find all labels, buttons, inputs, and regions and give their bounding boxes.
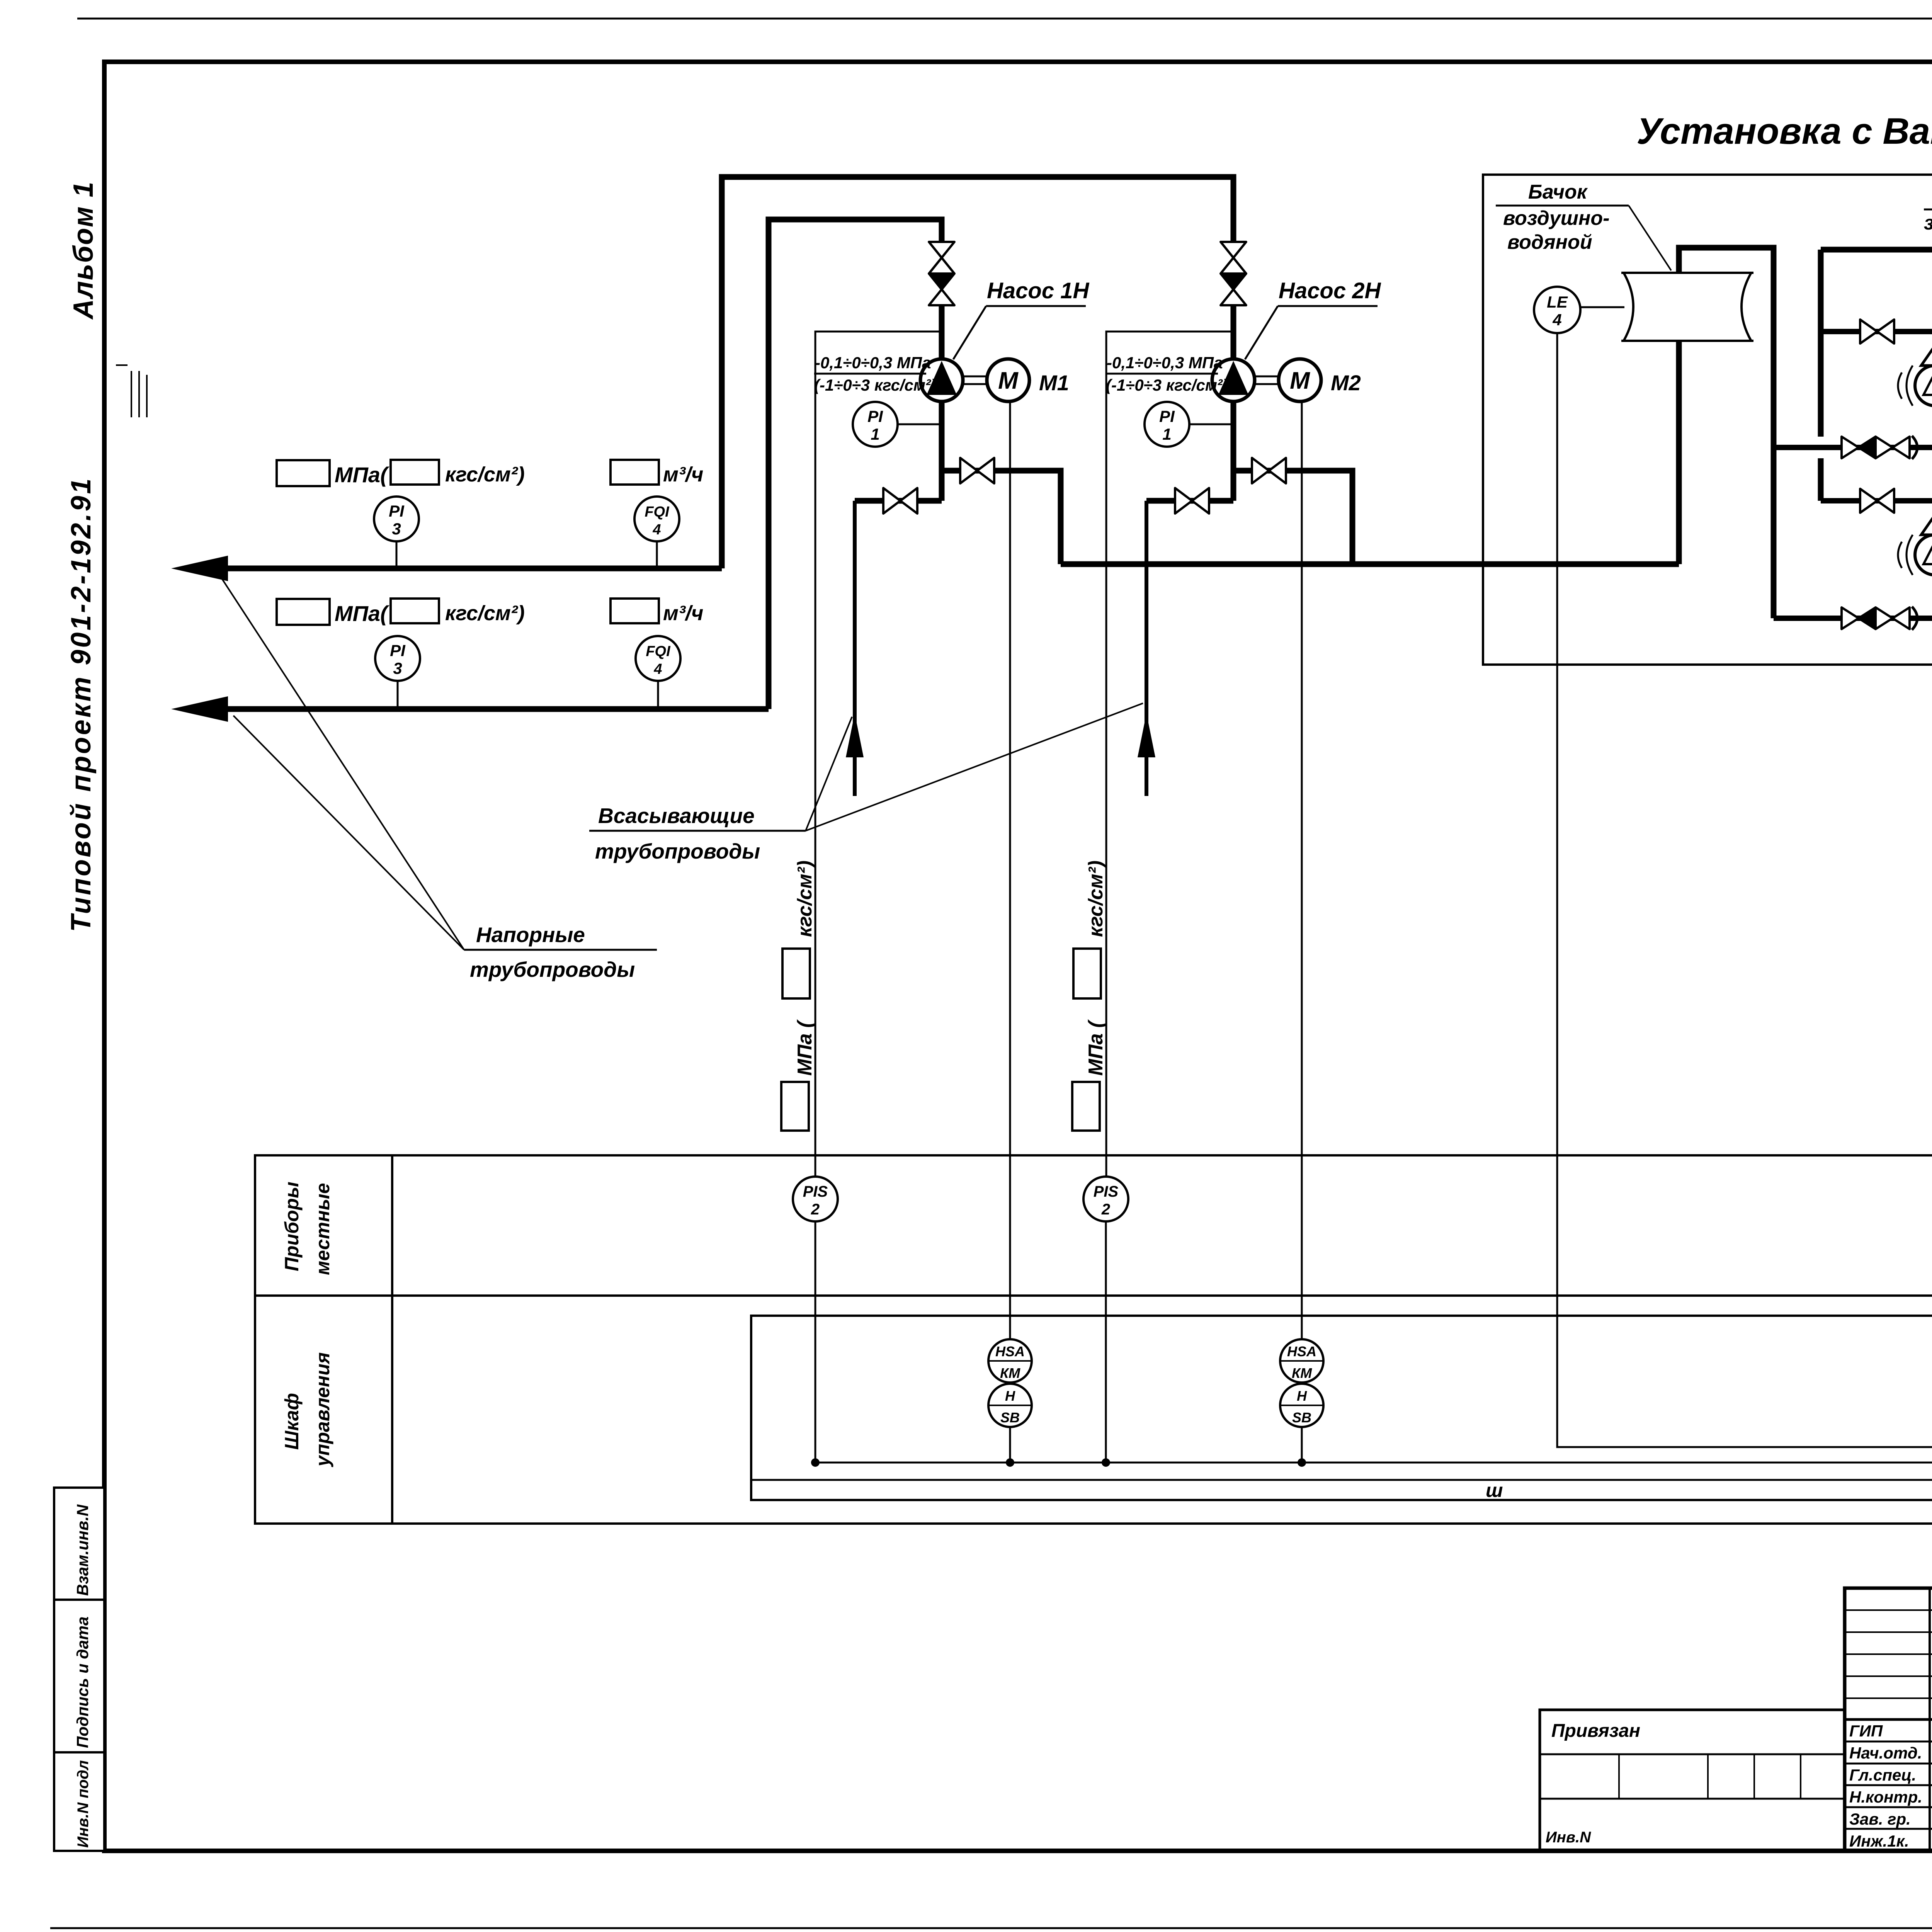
signature row ГИП Белянинов (1849, 1722, 1932, 1740)
wire suction branch pump М1 (855, 498, 942, 504)
gauge PI-1 М1 (853, 402, 942, 447)
gate valve above pump М2 (1221, 242, 1246, 274)
vibration arcs 2ВН (1898, 535, 1913, 575)
switch PIS-2 pump М2 (1083, 1177, 1128, 1221)
label Бачок воздушно-водяной (1496, 181, 1671, 270)
svg-text:МПа (: МПа ( (1085, 1019, 1107, 1076)
rotated value box on impulse line x=2863 (1073, 949, 1101, 998)
signature row Зав. гр. Бурыгин (1849, 1810, 1932, 1828)
wire LE-4 signal drop (1557, 333, 1932, 1447)
arrowhead pipeline 1 (171, 556, 228, 581)
label Насос 1Н (953, 278, 1089, 359)
table row divider (255, 1294, 1932, 1297)
svg-text:Напорные: Напорные (476, 923, 585, 947)
svg-text:Инж.1к.: Инж.1к. (1849, 1832, 1909, 1850)
suction pipeline stub М1 (846, 501, 864, 796)
priming branch to 2ВН (1821, 498, 1932, 503)
wire motor control drop М1 (1009, 401, 1011, 1340)
button H/SB М1 (988, 1384, 1032, 1427)
rotated value box 2 on impulse line x=2863 (1072, 1082, 1100, 1131)
svg-text:Насос 2Н: Насос 2Н (1279, 278, 1381, 303)
svg-text:КМ: КМ (1292, 1365, 1312, 1381)
svg-text:-0,1÷0÷0,3 МПа: -0,1÷0÷0,3 МПа (1107, 354, 1223, 372)
sheet top edge line (77, 18, 1932, 20)
gate valve above pump М1 (929, 242, 954, 274)
svg-text:(-1÷0÷3 кгс/см²): (-1÷0÷3 кгс/см²) (1106, 376, 1228, 394)
svg-text:М2: М2 (1331, 371, 1361, 395)
flex joint mark manifold A (1912, 436, 1917, 459)
svg-text:Зав. гр.: Зав. гр. (1849, 1810, 1911, 1828)
svg-text:Гл.спец.: Гл.спец. (1849, 1766, 1916, 1784)
control bus to scheme (815, 1454, 1932, 1471)
svg-text:4: 4 (653, 661, 662, 677)
pipe collector riser through tank (1679, 248, 1774, 618)
wire pump suction drop М1 (939, 305, 945, 360)
check valve above pump М2 (1221, 274, 1246, 305)
wire М2 to bus (1301, 1427, 1303, 1463)
impulse line to PIS-2 М2 (1106, 332, 1233, 1177)
priming trunk pipe (1821, 250, 1932, 501)
pressure range label М1 (814, 354, 936, 394)
vacuum pump 1ВН (1915, 366, 1932, 406)
svg-text:МПа (: МПа ( (794, 1019, 816, 1076)
binding box Привязан (1540, 1710, 1845, 1851)
wire pump discharge drop М2 (1231, 401, 1236, 501)
vacuum suction manifold B (1774, 361, 1932, 618)
svg-text:Шкаф: Шкаф (281, 1393, 303, 1450)
svg-text:Установка с Вакуум-насосами: Установка с Вакуум-насосами (1636, 111, 1932, 152)
selector HSA/КМ М2 (1280, 1339, 1323, 1383)
svg-text:М1: М1 (1039, 371, 1069, 395)
signature row Н.контр. Фомина (1849, 1788, 1932, 1806)
svg-text:местные: местные (312, 1183, 333, 1275)
wire pump suction drop М2 (1231, 305, 1236, 360)
bus Ш (751, 1473, 1932, 1486)
left margin stamp box Подпись и дата (54, 1600, 104, 1752)
signature row Нач.отд. Москалец (1849, 1744, 1932, 1762)
svg-text:2: 2 (1101, 1201, 1110, 1218)
value box м3/ч row1 (611, 460, 659, 485)
svg-text:заливочный: заливочный (1924, 212, 1932, 234)
junction dot PIS М2 (1102, 1458, 1110, 1467)
svg-text:Подпись и дата: Подпись и дата (73, 1617, 92, 1748)
pressure range label М2 (1106, 354, 1228, 394)
svg-text:PI: PI (1159, 407, 1175, 425)
label Бачок заливочный (1924, 185, 1932, 266)
svg-text:Взам.инв.N: Взам.инв.N (73, 1504, 92, 1596)
svg-text:Приборы: Приборы (281, 1182, 303, 1271)
vibration arcs 1ВН (1898, 366, 1913, 406)
svg-text:2: 2 (811, 1201, 820, 1218)
valve on suction branch М2 (1175, 488, 1209, 514)
flowmeter FQI-4 on pipeline 2 (636, 636, 680, 708)
svg-text:PIS: PIS (1094, 1183, 1119, 1200)
svg-text:Всасывающие: Всасывающие (598, 804, 755, 828)
svg-text:1: 1 (1162, 425, 1171, 443)
svg-text:HSA: HSA (1287, 1344, 1316, 1359)
svg-text:PIS: PIS (803, 1183, 828, 1200)
button H/SB М2 (1280, 1384, 1323, 1427)
svg-text:Альбом 1: Альбом 1 (68, 181, 99, 320)
discharge pipeline 1 (upper) (226, 177, 1233, 568)
svg-text:КМ: КМ (1000, 1365, 1020, 1381)
signatures grid (1845, 1588, 1932, 1851)
svg-text:PI: PI (867, 407, 883, 425)
svg-text:Насос 1Н: Насос 1Н (987, 278, 1089, 303)
wire М1 to bus (1009, 1427, 1011, 1463)
svg-text:кгс/см²): кгс/см²) (445, 602, 525, 625)
svg-text:М: М (1290, 367, 1310, 394)
suction pipeline stub М2 (1138, 501, 1155, 796)
sheet bottom edge line (50, 1927, 1932, 1929)
wire pump discharge drop М1 (939, 401, 945, 501)
motor М2 (1279, 359, 1321, 401)
vacuum suction manifold A (1774, 445, 1932, 450)
svg-text:3: 3 (393, 659, 402, 677)
label Всасывающие трубопроводы (589, 703, 1143, 863)
valve on suction branch М1 (883, 488, 917, 514)
discharge pipeline 2 (lower) (226, 219, 942, 709)
left margin stamp box Инв.N подл (54, 1752, 104, 1851)
flex joint mark manifold B (1912, 607, 1917, 630)
value box МПа row2 (277, 599, 330, 625)
svg-text:м³/ч: м³/ч (663, 602, 703, 625)
gauge PI-3 on pipeline 1 (374, 497, 419, 567)
signature row Инж.1к. Вестерская (1849, 1832, 1932, 1850)
level sensor LE-4 (1534, 287, 1624, 333)
impulse line to PIS-2 М1 (815, 332, 942, 1177)
wire PIS-2 М2 drop (1105, 1221, 1107, 1463)
svg-text:МПа(: МПа( (335, 463, 389, 487)
junction dot М2 (1298, 1458, 1306, 1467)
svg-text:МПа(: МПа( (335, 601, 389, 626)
gauge PI-1 М2 (1145, 402, 1233, 447)
junction dot М1 (1006, 1458, 1014, 1467)
svg-text:М: М (998, 367, 1019, 394)
svg-text:FQI: FQI (645, 504, 670, 520)
valve on discharge branch М1 (960, 458, 994, 483)
arrowhead pipeline 2 (171, 696, 228, 722)
svg-text:водяной: водяной (1507, 231, 1592, 253)
svg-text:Бачок: Бачок (1528, 181, 1588, 203)
pump Насос 2Н (1212, 359, 1255, 401)
wire motor control drop М2 (1301, 401, 1303, 1340)
svg-text:ГИП: ГИП (1849, 1722, 1883, 1740)
left margin stamp box Взам.инв.N (54, 1488, 104, 1600)
svg-text:ш: ш (1486, 1480, 1503, 1501)
wire discharge branch pump М2 (1233, 471, 1352, 564)
check valve manifold B (1842, 607, 1876, 629)
value box м3/ч row2 (611, 599, 659, 623)
gate valve manifold A left (1876, 437, 1910, 458)
svg-text:HSA: HSA (995, 1344, 1025, 1359)
wire PIS-2 М1 drop (815, 1221, 816, 1463)
signatures grid thin rows (1845, 1610, 1932, 1698)
motor М1 (987, 359, 1029, 401)
vacuum unit boundary box (1483, 175, 1932, 665)
svg-text:SB: SB (1000, 1410, 1020, 1425)
priming branch to 1ВН (1821, 329, 1932, 334)
switch PIS-2 pump М1 (793, 1177, 838, 1221)
svg-text:Н: Н (1005, 1388, 1015, 1404)
svg-text:кгс/см²): кгс/см²) (794, 861, 816, 937)
svg-text:Инв.N: Инв.N (1546, 1829, 1591, 1846)
control cabinet inner box (751, 1316, 1932, 1500)
collector pipe to vacuum unit (1061, 561, 1679, 567)
instrument table frame (255, 1155, 1932, 1524)
svg-text:-0,1÷0÷0,3 МПа: -0,1÷0÷0,3 МПа (815, 354, 931, 372)
table header column divider (391, 1155, 393, 1524)
wire suction branch pump М2 (1146, 498, 1233, 504)
pump Насос 1Н (920, 359, 963, 401)
svg-text:м³/ч: м³/ч (663, 463, 703, 486)
svg-text:PI: PI (389, 502, 405, 520)
svg-text:4: 4 (1552, 311, 1561, 329)
svg-text:FQI: FQI (646, 643, 671, 660)
svg-text:Н.контр.: Н.контр. (1849, 1788, 1922, 1806)
svg-text:трубопроводы: трубопроводы (595, 839, 760, 863)
inlet funnel 2ВН (1921, 515, 1932, 535)
value box кгс/см2 row1 (391, 460, 439, 485)
selector HSA/КМ М1 (988, 1339, 1032, 1383)
wire discharge branch pump М1 (942, 471, 1061, 564)
vacuum pump 2ВН (1915, 535, 1932, 575)
check valve manifold A (1842, 437, 1876, 458)
rotated value box on impulse line x=2110 (782, 949, 810, 998)
signatures grid name rows (1845, 1719, 1932, 1829)
valve on priming branch 2ВН (1860, 489, 1894, 513)
value box кгс/см2 row2 (391, 599, 439, 623)
value box МПа row1 (277, 460, 330, 486)
svg-text:Н: Н (1297, 1388, 1307, 1404)
svg-text:Привязан: Привязан (1551, 1721, 1640, 1741)
coupling pump-motor М2 (1255, 376, 1279, 384)
svg-text:Нач.отд.: Нач.отд. (1849, 1744, 1922, 1762)
header Шкаф управления (281, 1352, 333, 1468)
svg-text:LE: LE (1547, 293, 1568, 311)
valve on priming branch 1ВН (1860, 320, 1894, 344)
svg-text:1: 1 (871, 425, 879, 443)
gauge PI-3 on pipeline 2 (375, 636, 420, 708)
svg-text:Типовой проект 901-2-192.91: Типовой проект 901-2-192.91 (66, 476, 97, 932)
registration tick marks (116, 365, 147, 417)
signature row Гл.спец. Федотов (1849, 1766, 1932, 1784)
svg-text:трубопроводы: трубопроводы (470, 957, 635, 981)
check valve above pump М1 (929, 274, 954, 305)
svg-text:Инв.N подл: Инв.N подл (75, 1760, 92, 1848)
svg-text:кгс/см²): кгс/см²) (445, 463, 525, 486)
svg-text:кгс/см²): кгс/см²) (1085, 861, 1107, 937)
label Напорные трубопроводы (219, 575, 657, 981)
svg-text:управления: управления (312, 1352, 333, 1468)
gate valve manifold B left (1876, 607, 1910, 629)
svg-text:(-1÷0÷3 кгс/см²): (-1÷0÷3 кгс/см²) (814, 376, 936, 394)
air-water tank (1621, 273, 1753, 341)
svg-text:воздушно-: воздушно- (1503, 207, 1610, 230)
rotated value box 2 on impulse line x=2110 (781, 1082, 809, 1131)
coupling pump-motor М1 (964, 376, 987, 384)
header Приборы местные (281, 1182, 333, 1275)
junction dot PIS М1 (811, 1458, 820, 1467)
label Насос 2Н (1245, 278, 1381, 359)
svg-text:3: 3 (392, 520, 401, 538)
inlet funnel 1ВН (1921, 345, 1932, 366)
valve on discharge branch М2 (1252, 458, 1286, 483)
flowmeter FQI-4 on pipeline 1 (634, 497, 679, 567)
svg-text:SB: SB (1292, 1410, 1311, 1425)
svg-text:4: 4 (652, 522, 661, 538)
svg-text:PI: PI (390, 641, 406, 660)
